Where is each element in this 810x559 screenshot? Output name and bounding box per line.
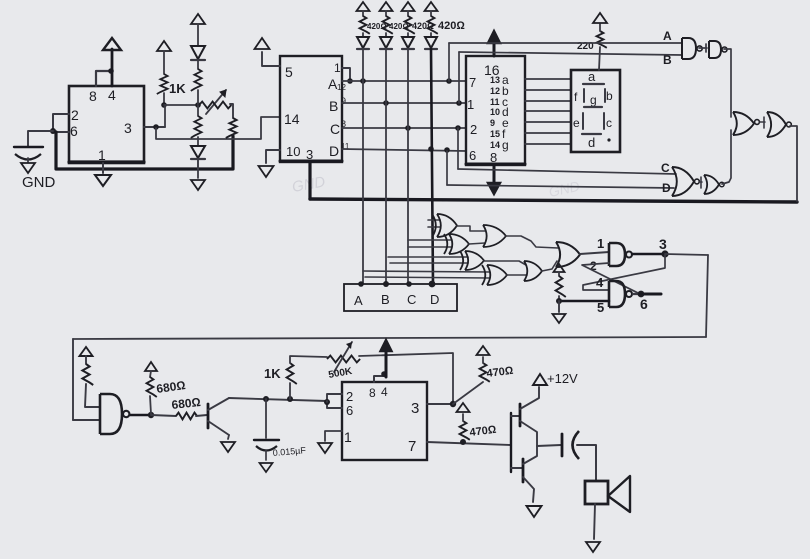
capacitor C2 curved plate [256, 446, 277, 451]
wire node to capacitor C1 [28, 131, 53, 146]
U1 pin 3 label [124, 120, 132, 136]
U4 pin 1 label [344, 429, 352, 445]
resistor R14 1K [287, 363, 297, 384]
svg-text:GND: GND [22, 174, 56, 191]
wire riser A [448, 43, 450, 81]
svg-text:D: D [662, 181, 671, 195]
junction C into box [406, 281, 412, 287]
G10 pin 1 label [597, 236, 604, 251]
junction pin3 node U4 [450, 401, 456, 407]
wire R2 to node [197, 90, 199, 105]
wire C3 to speaker [577, 445, 596, 481]
wire node to R4 [197, 106, 199, 116]
XOR gate X2 input rails from C [408, 240, 452, 247]
junction R1 bottom [161, 102, 167, 108]
wire D2 to bottom rail [197, 159, 199, 169]
ground arrow below R10 [553, 314, 566, 323]
capacitor C3 curved plate [573, 431, 580, 459]
input arrow above pin5 [255, 38, 270, 49]
wire base rail Q2 Q3 [510, 413, 512, 472]
R13 680 ohm value label [171, 395, 202, 412]
wire G11 output node 6 [633, 293, 641, 295]
wire speaker to ground [594, 504, 595, 539]
pullup arrow above R12 [145, 362, 157, 371]
svg-text:g: g [590, 93, 597, 107]
svg-text:C: C [661, 161, 670, 175]
U2 output C label [330, 119, 346, 137]
svg-text:1: 1 [344, 429, 352, 445]
svg-text:7: 7 [408, 438, 416, 455]
U2 pin 10 label [286, 144, 300, 159]
svg-text:1K: 1K [264, 366, 281, 381]
svg-text:D: D [329, 143, 339, 159]
svg-text:1: 1 [98, 147, 106, 163]
wire P2 right to pin3 node [359, 353, 453, 403]
svg-text:7: 7 [469, 75, 476, 90]
junction R14 tap [287, 396, 293, 402]
svg-text:6: 6 [346, 403, 353, 418]
transistor Q1 base bar [207, 404, 210, 428]
ground arrow below U3 [488, 183, 500, 194]
diode D6 [425, 33, 437, 49]
U4 pin 2 label [346, 389, 353, 404]
wires U3 to display segments [525, 79, 571, 144]
resistor R9 220 ohm [597, 24, 607, 48]
capacitor C2 top plate [254, 439, 279, 441]
thick stub node 6 [641, 293, 661, 296]
R1 1K value label [169, 81, 186, 96]
wire X4 to OR G8 [507, 274, 527, 276]
capacitor C3 left plate [561, 434, 564, 456]
wire R10 to ground [558, 301, 560, 312]
IC U1 555 timer body [69, 86, 144, 163]
svg-text:9: 9 [490, 118, 495, 128]
wire G12 output [130, 414, 151, 416]
OR gate G5 [733, 112, 754, 135]
U4 pin 7 label [408, 438, 416, 455]
svg-text:g: g [502, 138, 509, 152]
G10 pin 2 label [590, 259, 597, 273]
Vcc arrow above D1 [191, 14, 205, 24]
svg-text:4: 4 [381, 385, 388, 399]
switch box [344, 284, 457, 311]
pullup arrow above R10 [554, 264, 565, 272]
resistor R11 [82, 356, 93, 385]
U1 pin 1 label [98, 147, 106, 163]
U3 pin 16 label [484, 62, 500, 78]
R8 420 ohm value label [438, 20, 465, 32]
XOR gate X2 [444, 234, 469, 254]
wire net B to gate G1 [459, 52, 682, 55]
diode D1 [191, 46, 205, 60]
IC U3 7447 decoder body [466, 56, 525, 165]
ground arrow below C1 [21, 158, 35, 173]
junction R16 tap [460, 439, 466, 445]
capacitor C1 curved plate [15, 154, 41, 160]
wire pin3 up to R1 [164, 105, 166, 127]
P2 wiper arrow [334, 342, 352, 372]
wire U4 pins 8-4 tie [374, 376, 386, 382]
svg-text:2: 2 [346, 389, 353, 404]
junction A to riser [360, 78, 366, 84]
transistor Q1 collector [208, 398, 229, 410]
junction pin3 node [153, 124, 159, 130]
node 3 label [659, 236, 667, 252]
junction C to gate riser [455, 125, 461, 131]
U2 output D label [329, 142, 350, 159]
wire counter bit B vertical to switch box [385, 49, 387, 284]
speaker SPK1 box [585, 481, 608, 504]
wire G2 output down right side [724, 49, 731, 117]
wire node to R13 [151, 415, 176, 416]
wire feedback across bottom [73, 337, 706, 339]
wire Q1 emitter to ground [228, 435, 229, 439]
OR gate G9 [556, 242, 580, 267]
segment d label [582, 134, 601, 150]
wire pin3 node to R15 [453, 382, 483, 404]
svg-text:b: b [606, 89, 613, 103]
IC U4 555 timer body [342, 382, 427, 460]
svg-text:C: C [330, 121, 340, 137]
wire U1 pin3 output [144, 126, 165, 128]
svg-text:c: c [606, 116, 612, 130]
svg-text:11: 11 [490, 97, 500, 107]
speaker SPK1 cone [608, 476, 630, 512]
svg-text:2: 2 [470, 122, 477, 137]
capacitor C1 top plate [14, 146, 43, 148]
svg-text:D: D [430, 292, 439, 307]
thick wire U3 pin16 Vcc [493, 44, 496, 56]
wire D1 anode lead [197, 24, 199, 45]
junction G12 output node [148, 412, 154, 418]
G11 pin 5 label [597, 300, 604, 315]
wire clock: pin3 node to U2 pin14 [156, 117, 280, 139]
resistor R8 420 ohm [428, 11, 438, 34]
NAND gate G12 [100, 394, 129, 434]
junction B to riser [383, 100, 389, 106]
U3 pin 8 label [490, 150, 497, 165]
NOR gate G3 inputs C D [672, 167, 699, 196]
XOR gate X4 [482, 265, 507, 285]
wire U1 pin4 to Vcc [111, 49, 114, 86]
wire display common to R9 [599, 47, 600, 70]
wire U4 pin7 output [427, 442, 511, 445]
wire U4 pin1 bracket [325, 431, 342, 441]
GND label [22, 174, 56, 191]
svg-text:8: 8 [490, 150, 497, 165]
wire P1 to R3 [230, 104, 233, 118]
thick wire U4 Vcc [385, 351, 388, 377]
U2 pin 3 label [306, 147, 313, 162]
thick wire U3 pin8 ground [493, 165, 496, 183]
wire C2 to ground [265, 450, 267, 460]
wire D1 to R2 [197, 60, 199, 69]
NOR gate G4 inverter [704, 175, 724, 194]
Vcc arrow above U1 [103, 38, 121, 50]
wire bus line D [342, 149, 466, 151]
svg-text:A: A [354, 293, 363, 308]
svg-text:14: 14 [284, 111, 300, 127]
junction A to gate riser [446, 78, 452, 84]
svg-text:1: 1 [334, 61, 341, 75]
U3 pin 1 label [467, 97, 474, 112]
wire C2 down [265, 399, 267, 438]
ground arrow below Q3 [527, 506, 542, 517]
svg-text:d: d [588, 135, 595, 150]
wire rail to Q3 base [511, 467, 523, 469]
wire feedback to G12 input [73, 419, 100, 421]
wire G6 output to ground bus [790, 126, 797, 201]
XOR gate X3 input rails from B [388, 257, 468, 263]
junction pin1-A [347, 78, 353, 84]
wire collector node to U4 [326, 401, 328, 402]
wire R11 to G12 input [85, 384, 100, 407]
potentiometer P1 wiper arrow [206, 90, 226, 114]
Vcc arrow above R1 [157, 41, 171, 51]
Vcc arrow above U3 [488, 31, 500, 43]
svg-text:9: 9 [341, 96, 346, 106]
ground arrow below D2 [191, 180, 205, 190]
NAND gate G10 [609, 243, 632, 266]
svg-text:B: B [663, 53, 672, 67]
wire R13 to Q1 base [196, 415, 207, 416]
wire R10 node to G11 input 5 [560, 300, 609, 303]
thick wire U2 pin3 down [308, 162, 311, 199]
svg-text:B: B [329, 98, 338, 114]
svg-text:4: 4 [596, 275, 604, 290]
resistor R1 1K [157, 74, 168, 94]
wire X2 to OR G7 [469, 243, 485, 244]
wire net C to gate G3 [458, 169, 676, 174]
wire bus line B [342, 102, 466, 104]
svg-text:3: 3 [124, 120, 132, 136]
wire U1 pins 2-6 tie [53, 114, 69, 132]
Vcc arrow above R6 420ohm [380, 2, 393, 11]
junction B into box [383, 281, 389, 287]
segment e label [573, 113, 583, 130]
wire below rail to ground [197, 170, 199, 178]
wire R4 to D2 [197, 137, 199, 145]
resistor R15 470 ohm [480, 357, 490, 382]
svg-text:6: 6 [70, 123, 78, 139]
svg-text:1: 1 [597, 236, 604, 251]
resistor R12 680 ohm [147, 371, 157, 397]
U3 pin 6 label [469, 148, 476, 163]
OR gate G8 [524, 261, 542, 281]
wire node3 cross to G11 input 4 [583, 255, 665, 290]
resistor R13 680 ohm [176, 413, 197, 420]
wire net D to gate G3 [447, 185, 674, 188]
transistor Q2 emitter [520, 421, 537, 446]
junction R10 bottom [556, 298, 562, 304]
wire R14 to node [289, 383, 291, 399]
wire bus line A [342, 80, 466, 82]
U2 output A label [328, 76, 346, 92]
wire G1 to G2 [699, 44, 707, 52]
diode D4 [380, 33, 392, 49]
wire rail to Q2 base [511, 415, 520, 417]
net A label [663, 29, 672, 43]
transistor Q1 emitter [208, 421, 229, 435]
R5 420 ohm value label [367, 22, 387, 31]
segment a label [583, 69, 604, 84]
Vcc arrow above Q2 +12V [533, 374, 547, 385]
junction node 3 [661, 250, 668, 257]
svg-text:10: 10 [286, 144, 300, 159]
wire G5 output bubble [755, 120, 760, 125]
U4 pin 8 label [369, 386, 376, 400]
wire G4 output up right side [722, 130, 731, 184]
G11 pin 4 label [596, 275, 604, 290]
wire feedback down right [706, 255, 708, 337]
switch box label D [430, 292, 439, 307]
junction B to gate riser [456, 100, 462, 106]
XOR gate X1 stub inputs [428, 220, 440, 227]
XOR gate X3 [460, 251, 484, 270]
junction pins 2-6 node [324, 399, 330, 405]
U1 pin 4 label [108, 87, 116, 103]
wire feedback down left [72, 339, 74, 420]
wire drop D [446, 151, 448, 185]
junction D to gate riser [444, 147, 450, 153]
potentiometer P1 element [199, 102, 231, 109]
diode D5 [402, 33, 414, 49]
wire R12 to node [150, 396, 151, 414]
pullup arrow above R11 [80, 347, 93, 356]
svg-text:5: 5 [597, 300, 604, 315]
junction C to riser [405, 125, 411, 131]
U2 pin 5 label [285, 64, 293, 80]
junction diode node [195, 102, 201, 108]
wire U1 pins 8-4 tie [96, 71, 112, 86]
segment f label [574, 89, 584, 104]
wire G3 to G4 [699, 177, 702, 188]
wire counter bit C vertical to switch box [407, 49, 409, 284]
svg-text:6: 6 [640, 296, 648, 312]
resistor R6 420 ohm [383, 11, 393, 34]
wire U1 pin1 to ground [102, 163, 104, 173]
segment c label [604, 113, 612, 130]
svg-text:B: B [381, 292, 390, 307]
svg-text:12: 12 [490, 86, 500, 96]
OR gate G6 [767, 112, 791, 137]
svg-text:a: a [588, 69, 596, 84]
R16 470 ohm value label [469, 424, 498, 439]
NAND gate G2 inverter [709, 41, 727, 58]
wire G11 out cross to G10 input 2 [582, 263, 640, 294]
node 6 label [640, 296, 648, 312]
svg-text:14: 14 [490, 140, 500, 150]
ground arrow below C2 [260, 463, 273, 472]
wire X3 to OR G8 [484, 261, 526, 265]
wire G10 output to node 3 [632, 253, 665, 255]
resistor R2 [191, 69, 202, 91]
R12 680 ohm value label [155, 378, 186, 396]
ground arrow below U1 pin1 [95, 175, 111, 186]
wire G7 output to G9 [506, 236, 558, 248]
7-segment display DS1 body [571, 70, 620, 152]
svg-text:3: 3 [411, 400, 419, 417]
wire U2 pin10 bracket [266, 150, 280, 163]
Vcc arrow above R7 420ohm [402, 2, 415, 11]
wire net A to gate G1 [449, 42, 682, 44]
segment b label [605, 89, 613, 103]
U3 segment pin labels 13a 12b 11c 10d 9e 15f 14g [490, 73, 509, 152]
svg-text:13: 13 [490, 75, 500, 85]
resistor R10 [556, 272, 566, 301]
svg-text:4: 4 [108, 87, 116, 103]
resistor R16 470 ohm [460, 414, 470, 440]
svg-text:+12V: +12V [547, 371, 578, 386]
wire counter bit D vertical to switch box [431, 49, 433, 284]
C2 value label 0.015uF [272, 445, 306, 458]
U1 pin 8 label [89, 88, 97, 104]
diode D3 [357, 33, 369, 49]
svg-text:A: A [663, 29, 672, 43]
junction pins 8-4 U4 [381, 371, 387, 377]
decimal point [607, 138, 610, 141]
resistor R5 420 ohm [360, 11, 370, 34]
ground arrow below U4 pin1 [318, 443, 332, 453]
junction D into box [429, 281, 436, 288]
svg-text:15: 15 [490, 129, 500, 139]
svg-text:1: 1 [467, 97, 474, 112]
segment g label [584, 93, 602, 107]
wire node3 to feedback right side [665, 254, 708, 255]
wire riser B [458, 52, 460, 103]
P2 500K value label [328, 366, 354, 381]
U4 pin 6 label [346, 403, 353, 418]
wire U2 pin5 bracket [262, 52, 280, 66]
ground arrow below Q1 [221, 442, 235, 452]
R14 1K value label [264, 366, 281, 381]
svg-text:8: 8 [89, 88, 97, 104]
U2 pin 14 label [284, 111, 300, 127]
wire U2 pin1 tie to A [342, 68, 350, 81]
junction D to riser [428, 146, 434, 152]
resistor R7 420 ohm [405, 11, 415, 34]
transistor Q2 base bar [519, 404, 522, 426]
thick wire pin6 node down and across [56, 132, 233, 169]
wire X1 to OR G7 [457, 226, 485, 231]
U1 pin 6 label [70, 123, 78, 139]
transistor Q3 base bar [522, 459, 525, 482]
arrow below pin10 [259, 166, 274, 177]
svg-text:3: 3 [659, 236, 667, 252]
wire G5 to G6 [760, 117, 765, 128]
XOR gate X4 input rails from A [363, 271, 490, 278]
XOR gate X1 [432, 214, 457, 237]
svg-text:3: 3 [306, 147, 313, 162]
IC U2 7493 counter body [280, 56, 342, 162]
potentiometer P2 500K element [327, 356, 360, 363]
Vcc arrow above R8 420ohm [425, 2, 438, 11]
transistor Q3 collector [523, 446, 537, 464]
NAND gate G11 [609, 281, 632, 307]
U4 pin 4 label [381, 385, 388, 399]
U1 pin 2 label [71, 107, 79, 123]
svg-text:6: 6 [469, 148, 476, 163]
svg-text:420Ω: 420Ω [438, 20, 465, 32]
svg-text:1K: 1K [169, 81, 186, 96]
junction A into box [358, 281, 364, 287]
R9 220 ohm value label [577, 41, 594, 52]
switch box label A [354, 293, 363, 308]
junction C2 tap [263, 396, 269, 402]
diode D2 [191, 146, 205, 159]
wire counter bit A vertical to switch box [362, 49, 364, 284]
Vcc arrow above R15 [477, 346, 490, 355]
